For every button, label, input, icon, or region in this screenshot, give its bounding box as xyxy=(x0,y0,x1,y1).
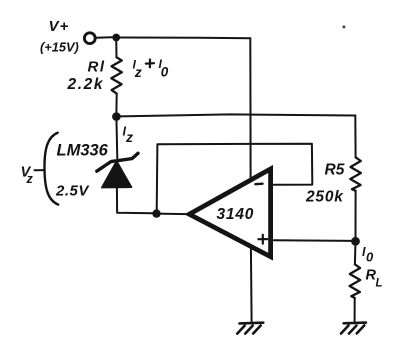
wire node to RL xyxy=(354,241,357,264)
wire R1 to node xyxy=(115,94,117,113)
label I0 xyxy=(362,245,374,265)
op-amp U1 3140 body xyxy=(189,169,270,257)
zener diode LM336 triangle xyxy=(102,161,132,188)
junction dot mid xyxy=(112,112,121,121)
wire R5 top lead xyxy=(354,116,356,158)
wire from terminal to node xyxy=(96,36,112,39)
wire node to zener xyxy=(115,117,118,159)
svg-text:L: L xyxy=(376,278,383,290)
wire R5 bottom lead xyxy=(355,191,357,238)
stray dot artifact xyxy=(343,26,346,29)
svg-text:0: 0 xyxy=(366,250,374,265)
svg-text:2.5V: 2.5V xyxy=(55,183,90,200)
label Iz xyxy=(123,125,134,146)
svg-text:V+: V+ xyxy=(49,18,70,35)
resistor R1 xyxy=(111,57,122,93)
wire plus input to output node xyxy=(274,239,354,242)
ground left xyxy=(237,323,263,334)
svg-text:z: z xyxy=(125,129,133,145)
svg-text:z: z xyxy=(26,172,34,186)
junction dot output xyxy=(152,209,160,217)
tie line Vz to brace xyxy=(35,169,45,171)
wire zener anode down and right (op-amp output node) xyxy=(117,187,153,214)
zener diode LM336 cathode bar xyxy=(97,153,138,171)
wire V+ drop to op-amp top xyxy=(249,38,251,180)
terminal V+ xyxy=(84,33,95,44)
op-amp minus sign xyxy=(255,183,262,186)
wire feedback loop xyxy=(157,144,313,210)
svg-text:3140: 3140 xyxy=(217,206,255,223)
wire RL to ground xyxy=(354,298,356,321)
wire rail node to R5 xyxy=(116,114,355,116)
wire node to resistor R1 xyxy=(115,38,117,58)
wire op-amp bottom to ground xyxy=(250,246,253,321)
svg-text:250k: 250k xyxy=(305,189,344,206)
svg-text:(+15V): (+15V) xyxy=(40,40,79,55)
svg-text:z: z xyxy=(134,64,142,80)
junction dot output node xyxy=(351,237,360,246)
label Iz+I0 xyxy=(133,57,169,80)
svg-text:R5: R5 xyxy=(325,162,345,179)
resistor R5 xyxy=(350,157,361,191)
op-amp plus sign xyxy=(258,235,267,244)
label Vz xyxy=(21,165,34,187)
junction dot top xyxy=(112,34,120,42)
svg-text:Rl: Rl xyxy=(88,59,106,76)
brace for LM336 xyxy=(44,133,58,205)
ground right xyxy=(341,323,366,334)
svg-text:2.2k: 2.2k xyxy=(67,76,105,93)
wire top rail xyxy=(116,37,250,40)
svg-text:LM336: LM336 xyxy=(57,142,109,160)
svg-text:0: 0 xyxy=(161,65,169,80)
wire to op-amp output vertex xyxy=(157,213,187,216)
label RL xyxy=(366,268,383,290)
resistor RL xyxy=(350,264,361,298)
